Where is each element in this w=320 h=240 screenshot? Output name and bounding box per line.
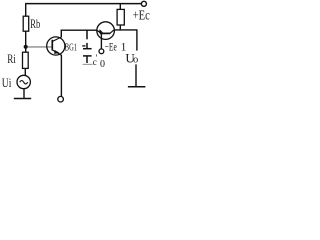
transistor BG1 emitter diagonal with arrow [52,50,61,55]
transistor BG2 base bar [100,32,110,34]
capacitor C'0 plate bottom [83,55,92,57]
capacitor C'0 plate top [83,48,92,50]
svg-text:Ri: Ri [7,51,16,66]
wire output upper segment [136,30,138,51]
wire Rc top lead [119,4,121,10]
node junction dot [24,45,28,49]
resistor Rb [23,16,29,31]
dash mark left of capacitor [82,45,85,47]
terminal +Ec open circle [141,1,146,6]
wire Rc bottom lead [119,25,121,30]
wire capacitor top lead [86,30,88,39]
svg-text:Ui: Ui [2,75,12,90]
svg-text:o: o [133,54,138,65]
wire capacitor bottom stem [86,57,88,64]
wire node to Ri [25,48,27,53]
svg-text:+Ec: +Ec [133,9,150,24]
wire base lead (gray) from node to BG1 [28,46,52,48]
terminal BG1 emitter open circle [58,96,64,102]
svg-text:′: ′ [96,54,98,64]
transistor BG1 base bar [51,40,53,51]
wire BG2 collector to output corner [115,29,138,31]
ground bar under Ui [14,98,31,100]
terminal -Ee1 open circle [99,49,104,54]
wire Ri bottom to source [24,68,26,75]
wire BG1 collector up [60,30,62,38]
wire top rail [25,3,141,5]
svg-text:Rb: Rb [30,17,40,31]
wire left vertical from rail to Rb [25,4,27,17]
svg-text:−Ee: −Ee [105,41,117,53]
capacitor C'0 upper stub [86,43,88,48]
resistor Rc [117,9,124,25]
ground faint bar under capacitor [83,63,93,65]
transistor BG1 collector diagonal [52,37,61,42]
wire BG1 emitter down [60,55,62,97]
source Ui circle [17,75,30,88]
transistor BG2 circle [97,22,115,40]
transistor BG2 collector diagonal [110,30,114,34]
wire collector rail to BG2 [61,29,97,31]
wire output lower segment [135,64,137,86]
transistor BG1 circle [47,37,65,55]
wire source to ground [23,89,25,98]
wire BG2 base lead down [100,33,102,48]
resistor Ri [23,52,29,68]
svg-text:BG1: BG1 [65,42,77,53]
transistor BG2 emitter diagonal with arrow [97,30,101,33]
source Ui sine wave [20,81,28,84]
wire Rb bottom to node [25,31,27,45]
svg-text:0: 0 [100,59,105,70]
ground bar under output [128,86,145,88]
